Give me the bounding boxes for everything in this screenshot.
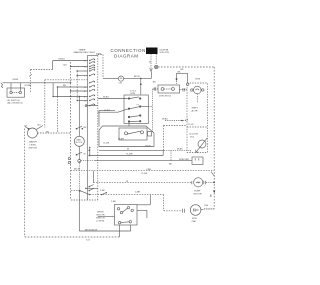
svg-text:YL-BK: YL-BK	[103, 143, 110, 145]
motor terminal node	[78, 160, 81, 163]
wire down x57	[56, 97, 58, 134]
svg-text:SWITCH: SWITCH	[29, 148, 38, 150]
wire from motor to clutch	[81, 160, 95, 162]
wire up to timer top	[102, 55, 104, 79]
timer T1 box	[86, 56, 88, 201]
svg-text:MOTOR: MOTOR	[97, 215, 106, 217]
connector bars fuse output	[183, 88, 185, 92]
wire GY down left side	[24, 129, 26, 238]
timer contacts	[89, 59, 95, 107]
arrow on border wire	[213, 191, 215, 194]
svg-text:SOL: SOL	[190, 137, 195, 139]
svg-text:BTM: BTM	[196, 79, 201, 81]
svg-text:YL-W: YL-W	[188, 124, 194, 126]
clutch sub box	[192, 157, 203, 165]
wire row BU	[71, 66, 88, 68]
svg-text:W-BK: W-BK	[177, 149, 183, 151]
svg-text:CB: CB	[119, 83, 123, 85]
svg-text:MOTOR: MOTOR	[194, 194, 203, 196]
connector bars pump output	[204, 181, 206, 184]
wire row	[77, 100, 88, 102]
water level switch PS1	[27, 128, 37, 138]
fuse F1 box	[158, 85, 180, 93]
wire GY-BU to timer	[53, 60, 88, 62]
connector bars fuse input	[154, 87, 156, 91]
wire down to capacitor	[163, 195, 165, 211]
svg-text:LID SWITCH: LID SWITCH	[7, 100, 20, 102]
wire YL to border	[71, 170, 215, 172]
svg-text:P2: P2	[84, 66, 86, 68]
main motor M1	[78, 97, 80, 137]
svg-text:BK-W BU-W: BK-W BU-W	[85, 229, 98, 231]
wire row bottom	[78, 191, 80, 231]
wire row	[57, 86, 88, 88]
svg-text:BK-W: BK-W	[134, 76, 141, 78]
wire down with break	[30, 70, 32, 93]
svg-text:(2 SPD): (2 SPD)	[97, 221, 105, 223]
power cord lead L (BK)	[150, 54, 152, 69]
svg-text:DRIVE: DRIVE	[97, 212, 104, 214]
wire W long	[99, 149, 164, 151]
svg-text:CAP: CAP	[192, 220, 197, 223]
power line from plug through breaker	[103, 77, 118, 79]
drive motor switch box S3	[115, 205, 138, 226]
svg-text:W-BK: W-BK	[13, 79, 19, 81]
cabinet border right	[213, 67, 215, 209]
wire row	[71, 90, 88, 92]
blade at border junction	[211, 172, 215, 177]
svg-text:Y-BR: Y-BR	[146, 169, 151, 171]
svg-text:1 3 5 2: 1 3 5 2	[130, 91, 137, 93]
svg-text:GY-BK: GY-BK	[25, 85, 32, 87]
junction dots	[44, 66, 80, 101]
output wire right	[148, 106, 152, 108]
power plug P1	[146, 48, 158, 55]
wire row	[53, 96, 88, 98]
svg-text:DGR 2W 53: DGR 2W 53	[159, 96, 172, 98]
svg-text:W-BR: W-BR	[118, 139, 124, 141]
svg-text:BU: BU	[64, 65, 67, 67]
tub box with notch	[99, 126, 154, 147]
wire row	[86, 105, 98, 107]
water level switch wire down	[44, 80, 46, 128]
svg-text:(MAIN MODEL ONLY): (MAIN MODEL ONLY)	[74, 51, 96, 54]
motor switch box S2	[124, 95, 148, 124]
agitate switch inner box	[119, 128, 147, 140]
svg-text:2-BK: 2-BK	[111, 201, 116, 203]
wire YL-BR	[90, 155, 163, 157]
svg-text:CLUTCH: CLUTCH	[189, 134, 198, 136]
connector bars capacitor input	[183, 209, 185, 213]
circuit breaker CB1	[118, 76, 123, 81]
ground terminal symbol	[155, 65, 158, 68]
timer terminal labels	[84, 60, 87, 102]
svg-text:CONNECTION: CONNECTION	[111, 48, 146, 53]
pump motor M3	[194, 178, 203, 187]
svg-text:TN-W: TN-W	[145, 146, 152, 148]
svg-text:PL: PL	[84, 60, 86, 62]
svg-text:LEVEL: LEVEL	[30, 145, 38, 147]
svg-text:L2: L2	[85, 100, 87, 102]
fuse output connector	[180, 89, 188, 91]
svg-text:SHIFT: SHIFT	[192, 108, 199, 110]
svg-text:BU: BU	[38, 125, 41, 127]
svg-text:W10-2TB: W10-2TB	[160, 52, 170, 54]
capacitor C1	[190, 205, 201, 216]
label timer (main model only)	[74, 50, 103, 56]
svg-text:GY: GY	[24, 126, 28, 128]
clutch solenoid	[189, 134, 198, 139]
svg-text:KPBC-RB: KPBC-RB	[179, 159, 189, 161]
cabinet border left	[70, 62, 72, 200]
dashed wire to lid switch	[31, 69, 53, 71]
svg-text:SWITCH: SWITCH	[96, 218, 105, 220]
svg-text:2-BR: 2-BR	[135, 192, 140, 194]
svg-text:DIAGRAM: DIAGRAM	[114, 53, 139, 58]
svg-text:GY-BU: GY-BU	[58, 59, 65, 61]
svg-text:MTR: MTR	[192, 218, 197, 220]
wire W-BR	[98, 111, 118, 113]
svg-text:PUMP: PUMP	[194, 191, 201, 193]
wire BK from pressure switch	[37, 132, 70, 134]
drive unit box (dashed)	[187, 83, 207, 153]
svg-text:WATER: WATER	[29, 141, 37, 144]
svg-text:BU: BU	[63, 85, 66, 87]
cabinet border bottom	[25, 236, 120, 238]
dashed box2 wire	[163, 126, 165, 151]
svg-text:W-BU: W-BU	[162, 119, 168, 121]
wire corner down	[52, 61, 54, 70]
svg-text:(ALL MODELS): (ALL MODELS)	[7, 102, 22, 105]
svg-text:YL-BR: YL-BR	[126, 154, 133, 156]
shifter motor M2	[194, 86, 202, 94]
title CONNECTION DIAGRAM	[111, 48, 146, 59]
timer lower contacts	[89, 185, 93, 191]
connector circles on border	[68, 157, 70, 159]
wire row	[77, 75, 88, 77]
power cord lead N	[155, 54, 157, 65]
svg-text:YL-BK: YL-BK	[141, 173, 148, 175]
svg-text:MOTOR: MOTOR	[76, 142, 83, 144]
svg-text:BU-W: BU-W	[74, 169, 81, 171]
wire branch down to motor switch box	[140, 78, 142, 94]
wire W-BU	[98, 98, 126, 100]
pump wire	[94, 182, 192, 184]
svg-text:ACTR: ACTR	[192, 110, 198, 113]
svg-text:2-BK: 2-BK	[100, 190, 105, 192]
svg-text:Y-G: Y-G	[86, 240, 90, 242]
svg-text:MTR: MTR	[131, 93, 136, 95]
wire stub	[99, 110, 115, 112]
svg-text:W-BU: W-BU	[103, 97, 109, 99]
left mesh bus	[76, 71, 78, 101]
lid switch S1	[7, 88, 25, 97]
svg-text:L1: L1	[84, 87, 86, 89]
wire row	[77, 70, 88, 72]
lid switch wire	[3, 82, 71, 84]
wire row 193.6	[71, 190, 79, 192]
cabinet border top dashed wire	[158, 66, 214, 68]
